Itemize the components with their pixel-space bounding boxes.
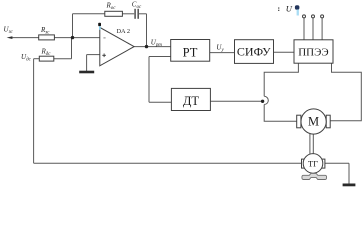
svg-text:ППЭЭ: ППЭЭ xyxy=(298,47,328,59)
svg-text:СИФУ: СИФУ xyxy=(237,44,271,58)
svg-text:РТ: РТ xyxy=(183,45,198,59)
svg-text:ДТ: ДТ xyxy=(183,94,200,108)
svg-text:ТГ: ТГ xyxy=(308,159,318,169)
svg-text:М: М xyxy=(308,115,319,129)
svg-text:DA 2: DA 2 xyxy=(117,28,130,35)
svg-text:U: U xyxy=(286,4,293,14)
